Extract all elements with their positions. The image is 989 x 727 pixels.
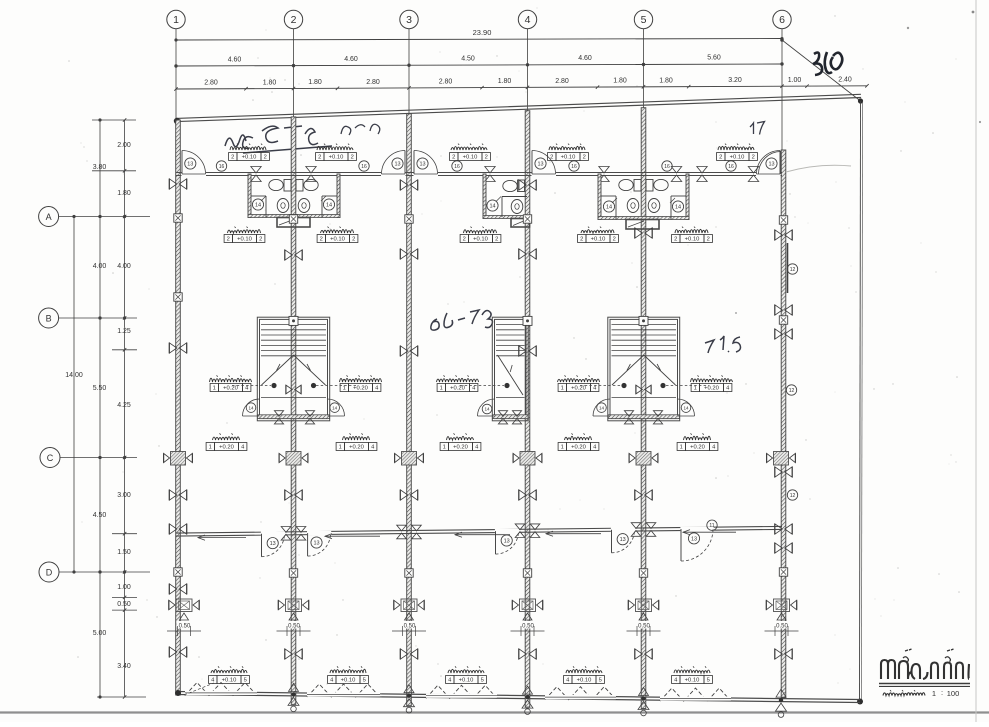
room label storage xyxy=(210,375,252,391)
garage column xyxy=(766,599,796,612)
leader dashes storage U4 xyxy=(580,385,621,387)
svg-text:1: 1 xyxy=(339,445,342,451)
bathroom tag 14 unit5 xyxy=(670,198,684,212)
grid line 1 above building xyxy=(175,29,177,120)
svg-text:2.80: 2.80 xyxy=(555,78,569,85)
bathroom step box unit1-2 xyxy=(277,218,310,228)
dimension row total 23.90 xyxy=(174,28,783,42)
svg-text:4.50: 4.50 xyxy=(93,512,107,519)
garage column hourglass xyxy=(523,613,532,620)
room label laundry/bath upper xyxy=(450,144,491,161)
room label storage xyxy=(340,375,382,391)
column row C xyxy=(513,452,542,466)
wall junction box xyxy=(174,568,182,576)
column row C xyxy=(395,452,424,466)
wall junction box xyxy=(405,215,413,223)
stair storage door unit3 xyxy=(478,399,495,416)
svg-text:+0.10: +0.10 xyxy=(459,678,474,684)
bottom wall xyxy=(176,692,860,703)
wall opening symbol xyxy=(775,524,792,534)
garage column xyxy=(169,599,199,612)
gate zigzag xyxy=(426,685,497,698)
wall junction box xyxy=(779,568,787,576)
stair unit3 xyxy=(492,317,528,421)
stair tag 14 left grid2 xyxy=(246,403,256,413)
svg-text:0.50: 0.50 xyxy=(522,624,534,630)
svg-text:1: 1 xyxy=(443,445,446,451)
room label laundry/bath upper xyxy=(548,144,589,161)
wall opening symbol xyxy=(285,490,302,500)
garage column dim 0.50 xyxy=(167,621,201,636)
svg-text:+0.10: +0.10 xyxy=(329,155,344,161)
svg-text:4.60: 4.60 xyxy=(578,55,592,62)
rear door tag 13 xyxy=(688,533,699,544)
svg-text:+0.10: +0.10 xyxy=(577,678,592,684)
stair pair grid2 xyxy=(257,317,329,421)
svg-text:1.80: 1.80 xyxy=(498,78,512,85)
right wall tag 12 c xyxy=(787,490,797,500)
svg-text:2: 2 xyxy=(674,237,677,243)
rear wall arrow xyxy=(546,531,601,536)
door tag 13 xyxy=(535,158,546,169)
handwriting 65-78 xyxy=(431,310,493,330)
svg-text:+0.20: +0.20 xyxy=(349,445,364,451)
svg-text:16: 16 xyxy=(361,164,367,170)
left dim end ticks xyxy=(92,120,146,697)
svg-text:1.00: 1.00 xyxy=(788,77,802,84)
svg-text:+0.10: +0.10 xyxy=(330,237,345,243)
svg-text:3: 3 xyxy=(406,14,412,26)
bathroom step box unit4-5 xyxy=(626,220,659,230)
svg-text:14: 14 xyxy=(599,405,605,410)
svg-text:16: 16 xyxy=(219,164,225,170)
grid circle 6 xyxy=(773,10,791,28)
room label laundry/bath upper xyxy=(229,144,270,161)
svg-text::: : xyxy=(941,688,943,697)
room label laundry/bath upper xyxy=(717,144,758,161)
right boundary line xyxy=(860,101,863,702)
room label living xyxy=(558,433,599,450)
bathroom pair unit4-5 xyxy=(598,174,689,220)
svg-text:+0.20: +0.20 xyxy=(353,386,368,392)
bottom left corner marker xyxy=(175,683,214,696)
wall junction box xyxy=(523,569,531,577)
right wall tag 12 a xyxy=(787,264,797,274)
grid line 2 above building xyxy=(293,29,295,117)
wall opening symbol xyxy=(169,343,186,353)
bottom wall marker xyxy=(404,685,415,713)
wall opening symbol xyxy=(400,490,417,500)
grid line 5 above building xyxy=(643,29,645,108)
svg-text:3.80: 3.80 xyxy=(93,164,107,171)
leader dashes storage U5 xyxy=(666,385,709,387)
svg-text:14.00: 14.00 xyxy=(65,372,83,379)
scan edge right line xyxy=(975,0,977,722)
front wall door xyxy=(756,151,781,177)
svg-text:16: 16 xyxy=(664,164,670,170)
svg-text:+0.10: +0.10 xyxy=(473,237,488,243)
bathroom step box unit3 xyxy=(511,219,530,228)
room label storage xyxy=(437,375,479,391)
room label living xyxy=(440,433,481,450)
column row C xyxy=(629,452,658,466)
svg-text:+0.20: +0.20 xyxy=(690,445,705,451)
stair bowtie grid5 xyxy=(636,385,651,394)
dimension row bays 4.60/4.60/4.50/4.60/5.60 xyxy=(174,55,783,68)
row leader line C xyxy=(60,456,137,459)
garage column hourglass xyxy=(639,613,648,620)
svg-text:3.00: 3.00 xyxy=(117,492,131,499)
left dim line main xyxy=(93,118,107,698)
wall opening symbol xyxy=(635,490,652,500)
wall opening symbol xyxy=(775,543,792,553)
gate opening white xyxy=(185,691,257,695)
svg-text:2: 2 xyxy=(318,155,321,161)
door tag 13 xyxy=(766,158,777,169)
door tag 13 xyxy=(392,158,403,169)
svg-text:+0.20: +0.20 xyxy=(453,445,468,451)
svg-text:2.00: 2.00 xyxy=(117,142,131,149)
svg-text:13: 13 xyxy=(313,541,319,547)
party wall grid 3 xyxy=(407,114,412,706)
svg-text:1: 1 xyxy=(561,445,564,451)
svg-text:A: A xyxy=(46,212,52,222)
svg-text:C: C xyxy=(47,453,54,463)
rear door tag 13 xyxy=(617,534,628,545)
svg-text:2: 2 xyxy=(752,155,755,161)
wall opening symbol xyxy=(169,524,186,534)
svg-text:+0.10: +0.10 xyxy=(237,237,252,243)
front wall tag 16 xyxy=(216,161,226,171)
svg-text:+0.20: +0.20 xyxy=(704,386,719,392)
stair bottom hourglasses grid5 xyxy=(624,411,662,424)
svg-text:2: 2 xyxy=(452,155,455,161)
svg-text:2: 2 xyxy=(613,237,616,243)
svg-text:1: 1 xyxy=(561,386,564,392)
svg-text:2: 2 xyxy=(485,155,488,161)
svg-text:+0.20: +0.20 xyxy=(571,386,586,392)
svg-text:+0.20: +0.20 xyxy=(450,386,465,392)
svg-text:5.60: 5.60 xyxy=(707,55,721,62)
svg-text:14: 14 xyxy=(326,203,332,209)
svg-text:+0.10: +0.10 xyxy=(561,155,576,161)
gate zigzag xyxy=(307,684,380,697)
left dim line 14.00 total xyxy=(65,217,83,573)
front wall window symbol xyxy=(485,167,495,182)
svg-text:1: 1 xyxy=(694,386,697,392)
svg-text:+0.10: +0.10 xyxy=(341,678,356,684)
svg-text:1: 1 xyxy=(932,689,936,698)
gate zigzag xyxy=(660,688,731,701)
svg-text:6: 6 xyxy=(779,14,785,26)
rear wall window symbols xyxy=(631,523,656,537)
svg-text:2: 2 xyxy=(495,237,498,243)
svg-text:5.00: 5.00 xyxy=(93,630,107,637)
party wall grid 2 xyxy=(291,117,296,705)
rear wall arrow xyxy=(198,535,246,540)
rear wall window symbols xyxy=(281,527,306,541)
stair tag 14 unit3 xyxy=(482,404,492,414)
wall opening symbol xyxy=(519,180,536,190)
wall junction box xyxy=(779,316,787,324)
room label storage xyxy=(558,375,600,391)
svg-text:4.00: 4.00 xyxy=(93,263,107,270)
svg-text:0.50: 0.50 xyxy=(179,624,191,630)
front wall door xyxy=(414,151,439,177)
svg-text:0.50: 0.50 xyxy=(288,624,300,630)
svg-text:1.80: 1.80 xyxy=(308,79,322,86)
rear door tag 13 xyxy=(501,535,512,546)
stair newel dots grid5 xyxy=(621,383,665,388)
svg-text:2: 2 xyxy=(351,155,354,161)
wall opening symbol xyxy=(400,180,417,190)
diagonal leader top right xyxy=(780,38,860,101)
wall opening symbol xyxy=(169,179,186,189)
wall opening symbol xyxy=(775,230,792,240)
stair storage doors grid2 xyxy=(243,399,345,416)
bathroom unit3 xyxy=(483,174,529,219)
svg-text:4.00: 4.00 xyxy=(117,263,131,270)
svg-text:11: 11 xyxy=(709,523,714,529)
garage column dim 0.50 xyxy=(392,621,426,636)
svg-text:2.80: 2.80 xyxy=(366,79,380,86)
stair bowtie grid2 xyxy=(286,385,301,394)
front wall door xyxy=(182,151,207,177)
svg-text:2: 2 xyxy=(291,14,297,26)
svg-text:+0.10: +0.10 xyxy=(685,237,700,243)
wall junction box xyxy=(523,215,531,223)
svg-text:2: 2 xyxy=(259,237,262,243)
svg-text:14: 14 xyxy=(489,204,495,210)
rear wall door xyxy=(680,527,713,561)
leader dashes storage U3 xyxy=(460,385,504,387)
leader dashes storage U2 xyxy=(316,385,356,387)
svg-text:5: 5 xyxy=(244,678,247,684)
svg-text:5: 5 xyxy=(599,678,602,684)
svg-text:1.00: 1.00 xyxy=(117,584,131,591)
party wall grid 5 xyxy=(641,108,646,709)
front wall window symbol xyxy=(306,167,316,182)
svg-text:1.80: 1.80 xyxy=(117,190,131,197)
room label bathroom lower xyxy=(672,227,713,243)
svg-text:2: 2 xyxy=(264,155,267,161)
svg-text:13: 13 xyxy=(270,541,276,547)
front wall window symbol xyxy=(697,167,707,182)
wall junction box xyxy=(289,569,297,577)
row circle D xyxy=(39,562,59,582)
garage column xyxy=(512,599,542,612)
room label parking xyxy=(672,666,713,683)
svg-text:0.50: 0.50 xyxy=(117,601,131,608)
svg-text:14: 14 xyxy=(248,405,254,410)
svg-text:+0.20: +0.20 xyxy=(219,445,234,451)
svg-text:14: 14 xyxy=(683,405,689,410)
svg-text:1.80: 1.80 xyxy=(613,78,627,85)
svg-text:+0.10: +0.10 xyxy=(222,678,237,684)
svg-text:+0.10: +0.10 xyxy=(242,155,257,161)
stair tag 14 right grid5 xyxy=(681,403,691,413)
rear wall door xyxy=(495,529,519,554)
svg-text:100: 100 xyxy=(947,689,960,698)
leader dashes storage U1 xyxy=(232,385,271,387)
svg-text:12: 12 xyxy=(790,493,796,499)
wall opening symbol xyxy=(635,228,652,238)
front wall window symbol xyxy=(251,167,261,182)
stair bottom hourglasses grid2 xyxy=(274,411,314,424)
stair junction square unit3 xyxy=(523,316,532,325)
garage column dim 0.50 xyxy=(765,621,799,636)
wall opening symbol xyxy=(519,249,536,259)
bottom wall marker xyxy=(288,683,299,711)
column row C xyxy=(164,452,193,466)
svg-text:1: 1 xyxy=(343,386,346,392)
wall junction box xyxy=(174,214,182,222)
wall opening symbol xyxy=(400,346,417,356)
grid line 3 above building xyxy=(408,29,410,114)
gate opening white xyxy=(660,696,731,700)
svg-text:0.50: 0.50 xyxy=(404,624,416,630)
svg-text:1: 1 xyxy=(680,445,683,451)
svg-text:13: 13 xyxy=(768,162,774,168)
svg-text:14: 14 xyxy=(255,203,261,209)
room label bathroom lower xyxy=(460,227,501,243)
front wall door xyxy=(381,151,406,177)
top right door arc xyxy=(759,152,782,175)
garage column xyxy=(394,599,424,612)
room label parking xyxy=(564,666,605,683)
svg-text:1: 1 xyxy=(440,386,443,392)
door tag 13 xyxy=(417,158,428,169)
grid circle 1 xyxy=(167,10,185,28)
svg-text:2: 2 xyxy=(550,155,553,161)
svg-text:14: 14 xyxy=(484,407,490,412)
svg-text:2: 2 xyxy=(580,237,583,243)
svg-text:2: 2 xyxy=(707,237,710,243)
wall opening symbol xyxy=(169,647,186,657)
right wall tag 12 b xyxy=(786,385,796,395)
bathroom tag 14 unit2 xyxy=(321,196,335,210)
room label bathroom lower xyxy=(224,227,265,243)
svg-text:5: 5 xyxy=(363,678,366,684)
gate opening white xyxy=(426,694,497,698)
stair tag 14 right grid2 xyxy=(330,403,340,413)
svg-text:4: 4 xyxy=(525,14,531,26)
rear door tag 13 xyxy=(267,538,278,549)
top-left corner node xyxy=(174,118,180,124)
front wall tag 16 xyxy=(726,161,736,171)
rear wall window symbols xyxy=(515,524,540,538)
svg-text:13: 13 xyxy=(537,162,543,168)
gate zigzag xyxy=(185,683,257,696)
rear wall tag 11 xyxy=(707,520,717,530)
room label laundry/bath upper xyxy=(316,144,357,161)
svg-text:4.25: 4.25 xyxy=(117,402,131,409)
bathroom tag 14 unit4 xyxy=(603,198,617,212)
handwriting 3.60 correction xyxy=(813,52,842,75)
row leader line A xyxy=(59,215,150,218)
front wall tag 16 xyxy=(452,161,462,171)
top wall xyxy=(176,94,861,121)
stair newel dots grid2 xyxy=(271,383,316,388)
rear wall arrow xyxy=(683,530,736,535)
wall opening symbol xyxy=(400,649,417,659)
svg-text:1.25: 1.25 xyxy=(117,328,131,335)
svg-text:3.40: 3.40 xyxy=(117,663,131,670)
party wall grid 4 xyxy=(525,111,530,707)
door tag 13 xyxy=(185,158,196,169)
front wall tag 16 xyxy=(662,161,672,171)
svg-text:12: 12 xyxy=(789,388,795,394)
svg-text:1.80: 1.80 xyxy=(659,77,673,84)
wall junction box xyxy=(779,216,787,224)
wall opening symbol xyxy=(519,490,536,500)
wall opening symbol xyxy=(775,649,792,659)
svg-text:2: 2 xyxy=(352,237,355,243)
room label parking xyxy=(328,666,369,683)
rear door tag 13 xyxy=(311,537,322,548)
bottom wall marker xyxy=(638,688,649,716)
title scale line (Thai) xyxy=(883,688,959,698)
svg-text:2: 2 xyxy=(583,155,586,161)
front wall window symbol xyxy=(671,167,681,182)
title floor plan (Thai) xyxy=(881,649,969,679)
svg-text:5: 5 xyxy=(707,678,710,684)
svg-text:4.60: 4.60 xyxy=(228,56,242,63)
room label living xyxy=(677,433,718,450)
room label bathroom lower xyxy=(578,227,619,243)
bottom wall marker xyxy=(522,686,533,714)
handwriting strike-through U1 label xyxy=(243,146,332,153)
rear wall arrow xyxy=(455,532,510,537)
svg-text:2.80: 2.80 xyxy=(204,80,218,87)
stair newel dot unit3 xyxy=(504,383,509,388)
svg-text:1.50: 1.50 xyxy=(117,549,131,556)
wall opening symbol xyxy=(775,467,792,477)
gate opening white xyxy=(307,692,380,696)
svg-text:4.60: 4.60 xyxy=(344,56,358,63)
svg-text:+0.10: +0.10 xyxy=(591,237,606,243)
svg-text:2: 2 xyxy=(227,237,230,243)
svg-text:+0.10: +0.10 xyxy=(463,155,478,161)
bottom wall marker xyxy=(776,689,787,717)
wall opening symbol xyxy=(635,649,652,659)
left dim line sub xyxy=(117,118,131,698)
stair pair grid5 xyxy=(608,317,680,421)
grid circle 3 xyxy=(400,10,418,28)
svg-text:5: 5 xyxy=(481,678,484,684)
svg-text:+0.20: +0.20 xyxy=(223,386,238,392)
svg-text:4.50: 4.50 xyxy=(461,56,475,63)
top right faint curve xyxy=(786,165,851,172)
scan edge bottom line xyxy=(0,711,989,713)
room label living xyxy=(206,433,247,450)
room label parking xyxy=(209,666,250,683)
svg-text:14: 14 xyxy=(332,405,338,410)
svg-text:13: 13 xyxy=(187,162,193,168)
rear wall xyxy=(176,526,782,536)
svg-text:2: 2 xyxy=(719,155,722,161)
svg-text:2.80: 2.80 xyxy=(439,79,453,86)
wall junction box xyxy=(405,569,413,577)
left wall xyxy=(176,120,181,695)
garage column dim 0.50 xyxy=(511,621,545,636)
svg-text:0.50: 0.50 xyxy=(776,624,788,630)
handwriting 17 xyxy=(750,122,765,135)
dimension row sub 2.80/1.80 ... 3.20/1.00/2.40 xyxy=(174,77,868,91)
rear wall window symbols xyxy=(397,525,422,539)
front wall tag 16 xyxy=(359,161,369,171)
garage column dim 0.50 xyxy=(277,621,311,636)
